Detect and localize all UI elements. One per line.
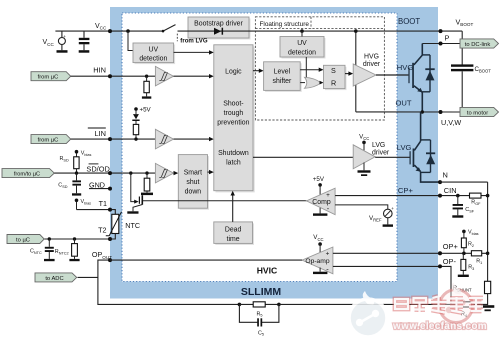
wire comp output to mosfet <box>143 200 307 202</box>
svg-text:HIN: HIN <box>93 66 106 75</box>
svg-text:SLLIMM: SLLIMM <box>241 286 281 298</box>
node SD pin <box>108 171 112 175</box>
svg-text:trough: trough <box>224 110 244 117</box>
resistor Rntc2 <box>55 237 80 261</box>
svg-text:+5V: +5V <box>313 176 325 183</box>
tag from uC (HIN) <box>31 72 71 81</box>
svg-text:LIN: LIN <box>94 129 106 138</box>
capacitor Csf <box>452 194 474 218</box>
node junction rail/UV float <box>300 29 304 33</box>
wire UV float to gate <box>305 57 307 79</box>
svg-text:S: S <box>331 66 336 75</box>
wire HIN <box>71 75 156 77</box>
block Smart shut down <box>178 155 209 210</box>
wire opamp minus to OP- <box>333 266 451 304</box>
svg-text:from/to µC: from/to µC <box>14 172 40 178</box>
wire Vcc rail (module) with switch <box>178 30 463 32</box>
node OPout pin <box>108 258 112 262</box>
svg-text:driver: driver <box>372 149 390 156</box>
wire SD/OD <box>54 172 155 174</box>
svg-text:R: R <box>331 79 336 88</box>
block UV detection (floating) <box>280 37 326 59</box>
svg-text:N: N <box>443 170 448 179</box>
wire bottom to right ground <box>279 303 488 305</box>
floating structure dashed box <box>255 17 384 120</box>
resistor R1 <box>471 251 489 265</box>
svg-text:from µC: from µC <box>38 138 59 144</box>
svg-text:to ADC: to ADC <box>45 276 63 282</box>
wire rail to HVG driver and OUT reference <box>355 31 357 112</box>
Vbias pull-up for T1 <box>75 199 91 210</box>
capacitor Csd to ground <box>58 173 81 196</box>
svg-text:time: time <box>227 236 240 243</box>
svg-text:down: down <box>185 189 202 196</box>
node junction Vcc/UV <box>126 29 130 33</box>
diode bootstrap <box>214 28 221 35</box>
wire to UV detection <box>128 31 133 50</box>
buffer HIN schmitt <box>155 66 173 86</box>
resistor Rgf <box>470 193 490 206</box>
tag to uC <box>7 235 44 244</box>
svg-text:Shoot-: Shoot- <box>223 101 243 108</box>
amp HVG driver <box>353 54 381 86</box>
svg-text:Bootstrap driver: Bootstrap driver <box>194 21 243 28</box>
svg-text:GND: GND <box>89 180 105 189</box>
node N pin <box>438 180 442 184</box>
node Vcc pin <box>108 29 112 33</box>
wire HIN buffer to logic <box>174 75 210 77</box>
svg-text:UV: UV <box>149 46 159 53</box>
wire OUT <box>356 111 460 113</box>
wire LIN buffer to logic <box>174 138 210 140</box>
tag to DC-link <box>460 39 499 48</box>
svg-text:Level: Level <box>274 69 291 76</box>
svg-text:CP+: CP+ <box>398 186 414 195</box>
svg-text:T1: T1 <box>99 199 107 208</box>
resistor Rsd pull-up to Vbias <box>60 150 92 175</box>
tag to motor <box>460 107 499 116</box>
wire LIN <box>71 138 156 140</box>
svg-text:latch: latch <box>226 160 241 167</box>
node OP+ pin <box>438 251 442 255</box>
wire level shifter to gate <box>300 82 305 84</box>
svg-text:to DC-link: to DC-link <box>465 42 491 48</box>
svg-text:OP+: OP+ <box>443 242 458 251</box>
+5V pull-up with diode on LIN <box>132 107 151 141</box>
node HIN pin <box>108 74 112 78</box>
resistor R3 <box>458 253 474 277</box>
wire P <box>422 43 460 45</box>
block SR latch <box>324 65 347 90</box>
svg-text:shut: shut <box>186 179 199 186</box>
Vcc filter capacitor <box>79 31 90 53</box>
wire T2 <box>44 234 115 240</box>
svg-text:LVG: LVG <box>372 142 385 149</box>
svg-text:HVG: HVG <box>397 63 414 72</box>
svg-text:Floating structure: Floating structure <box>260 21 310 28</box>
tag to ADC <box>35 273 77 282</box>
buffer SD schmitt <box>155 163 173 183</box>
wire HVG driver to gate <box>376 74 408 76</box>
svg-text:BOOT: BOOT <box>398 17 420 26</box>
node T2 pin <box>108 237 112 241</box>
svg-text:+: + <box>63 34 66 39</box>
svg-text:LVG: LVG <box>397 143 412 152</box>
svg-text:+: + <box>391 206 394 211</box>
resistor HIN pull-down <box>142 75 151 99</box>
node Vboot pin <box>439 29 443 33</box>
wire Vboot down to Cboot <box>461 31 463 65</box>
wire SD buffer to smart shutdown <box>174 172 175 174</box>
wire opamp output to OPout <box>110 259 302 261</box>
svg-text:Logic: Logic <box>225 68 242 75</box>
wire SR to HVG driver <box>345 73 349 75</box>
resistor Rshunt <box>453 281 491 305</box>
comparator Comp <box>307 176 336 216</box>
transistor LVG IGBT <box>410 112 441 182</box>
wire logic to level shifter <box>253 70 260 72</box>
switch (bootstrap) <box>163 25 176 32</box>
svg-text:Shutdown: Shutdown <box>218 150 249 157</box>
wire rail to UV float <box>301 31 303 36</box>
svg-text:UV: UV <box>297 40 307 47</box>
watermark elecfans <box>349 283 487 338</box>
node LIN pin <box>108 137 112 141</box>
svg-text:OP-: OP- <box>443 257 457 266</box>
transistor HVG IGBT <box>408 44 422 113</box>
SLLIMM module body <box>110 7 438 299</box>
capacitor Cboot <box>451 64 491 112</box>
svg-text:+: + <box>326 251 330 258</box>
svg-text:detection: detection <box>288 50 316 57</box>
block UV detection (low side) <box>133 43 175 64</box>
wire gate to R <box>320 81 324 85</box>
svg-text:NTC: NTC <box>125 221 140 230</box>
svg-text:to µC: to µC <box>16 237 30 243</box>
diode HVG freewheel <box>422 55 434 92</box>
thermistor NTC <box>106 212 140 236</box>
diode LVG freewheel <box>421 140 436 173</box>
svg-text:HVIC: HVIC <box>257 266 278 276</box>
svg-text:+5V: +5V <box>140 107 152 114</box>
svg-text:shifter: shifter <box>273 78 292 85</box>
svg-text:SD/OD: SD/OD <box>86 164 109 173</box>
svg-text:from LVG: from LVG <box>180 38 208 45</box>
svg-text:Smart: Smart <box>184 170 202 177</box>
wire smart shutdown to latch <box>208 171 210 173</box>
amp LVG driver <box>353 134 390 176</box>
wire OPout to bottom <box>98 260 240 304</box>
svg-text:CIN: CIN <box>444 186 457 195</box>
svg-text:prevention: prevention <box>217 119 249 126</box>
node OUT pin <box>439 110 443 114</box>
tag from/to uC (SD/OD) <box>2 169 54 178</box>
wire right rail <box>487 182 489 281</box>
Vcc supply source <box>43 31 68 53</box>
block Bootstrap driver <box>188 17 251 40</box>
wire comp plus CP+/CIN <box>335 195 488 197</box>
mosfet SD open drain <box>127 171 153 213</box>
svg-text:to motor: to motor <box>467 110 488 116</box>
tag from uC (LIN) <box>31 135 71 144</box>
svg-text:U,V,W: U,V,W <box>441 118 461 127</box>
wire Vcc rail (left) <box>55 30 163 32</box>
node P pin <box>439 42 443 46</box>
svg-text:OUT: OUT <box>396 99 412 108</box>
wire dead time arrow <box>232 195 234 222</box>
wire logic to LVG driver <box>253 156 353 158</box>
capacitor Cntc <box>30 237 55 261</box>
svg-text:www.elecfans.com: www.elecfans.com <box>392 321 487 332</box>
resistor R4 (bottom right) <box>458 302 472 318</box>
ground main right <box>481 305 494 311</box>
wire level shifter to S <box>300 69 319 71</box>
opamp Op-amp <box>302 234 333 274</box>
block Dead time <box>214 222 254 245</box>
svg-text:driver: driver <box>363 61 381 68</box>
block Level shifter <box>264 62 302 92</box>
resistor R2 with Vbias <box>461 230 478 256</box>
wire comp minus to Vref <box>335 205 388 209</box>
fake hanzi strokes (white core) <box>395 297 483 313</box>
node GND pin <box>108 187 112 191</box>
fake hanzi strokes (red fringe) <box>395 297 483 313</box>
wire LVG driver to gate <box>375 156 409 158</box>
capacitor C5 (bottom) <box>239 303 280 337</box>
svg-text:HVG: HVG <box>364 54 379 61</box>
wire opamp plus to OP+ <box>333 252 488 254</box>
buffer LIN schmitt <box>155 129 173 149</box>
gate OR (floating) <box>305 77 322 88</box>
block Logic / Shoot-trough prevention / Shutdown latch <box>214 45 255 193</box>
wire N to rail <box>440 181 488 183</box>
node T1 pin <box>108 208 112 212</box>
svg-text:detection: detection <box>139 56 167 63</box>
dashed from LVG <box>176 34 178 42</box>
svg-text:Dead: Dead <box>225 227 242 234</box>
wire T1 <box>77 210 116 215</box>
svg-text:+: + <box>326 192 330 199</box>
wire UV to logic <box>174 51 210 53</box>
svg-text:T2: T2 <box>98 226 106 235</box>
svg-text:from µC: from µC <box>38 75 59 81</box>
source Vref <box>369 206 394 227</box>
node OP- pin <box>438 264 442 268</box>
HVIC inner box <box>122 13 397 282</box>
svg-text:P: P <box>445 34 450 43</box>
wire to ADC <box>78 276 98 278</box>
node CIN pin <box>438 194 442 198</box>
resistor R5 (bottom) <box>238 302 279 318</box>
